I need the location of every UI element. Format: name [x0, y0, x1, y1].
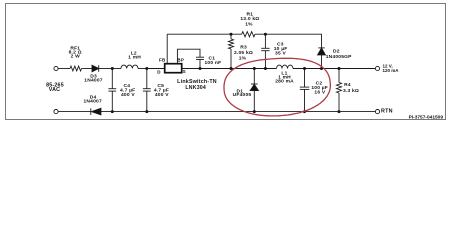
node D2 bottom	[320, 67, 323, 70]
node R3 top	[230, 33, 233, 36]
diode D2 1N4005GP	[318, 48, 326, 69]
wire L1 to output terminal	[293, 68, 375, 70]
svg-text:120 mA: 120 mA	[383, 68, 400, 73]
bottom return rail	[101, 111, 376, 113]
node D1 bottom	[253, 110, 256, 113]
svg-text:PI-3757-041509: PI-3757-041509	[409, 115, 444, 121]
svg-text:2 W: 2 W	[71, 54, 81, 60]
svg-text:3.3 kΩ: 3.3 kΩ	[343, 88, 359, 94]
wire RF1 to D3	[82, 68, 93, 70]
inductor L1	[277, 65, 294, 68]
node C3 bottom	[264, 67, 267, 70]
svg-text:FB: FB	[159, 58, 166, 63]
wire node to U1 D pin	[147, 68, 165, 70]
node C5 top	[145, 67, 148, 70]
svg-text:R4: R4	[344, 82, 351, 88]
node C4 top	[111, 67, 114, 70]
border frame	[6, 4, 446, 120]
pin BP riser to C1	[177, 49, 200, 64]
svg-text:D: D	[157, 69, 161, 74]
node R4 top	[338, 67, 341, 70]
svg-text:16 V: 16 V	[314, 90, 325, 96]
svg-text:1N4007: 1N4007	[84, 77, 103, 83]
output terminal RTN	[375, 110, 379, 114]
node D1 top	[253, 67, 256, 70]
resistor R3	[229, 34, 234, 68]
node C1 bottom	[199, 67, 202, 70]
wire L2 to node C5	[138, 68, 147, 70]
feedback line FB	[167, 33, 242, 35]
svg-text:35 V: 35 V	[275, 51, 286, 57]
svg-text:RTN: RTN	[381, 109, 393, 115]
capacitor C4	[108, 69, 116, 112]
input terminal bottom (neutral)	[54, 110, 58, 114]
svg-text:VAC: VAC	[49, 87, 60, 93]
highlight ellipse (red)	[224, 58, 330, 116]
node C4 bottom	[111, 110, 114, 113]
resistor RF1	[70, 66, 82, 71]
wire S pin to output rail	[182, 68, 277, 70]
inductor L2	[121, 65, 138, 68]
svg-text:1 mH: 1 mH	[128, 55, 141, 61]
node R4 bottom	[338, 110, 341, 113]
pin FB riser	[166, 34, 168, 64]
svg-text:1N4005GP: 1N4005GP	[326, 54, 352, 60]
svg-text:D2: D2	[333, 48, 340, 54]
wire terminal to D4	[58, 111, 91, 113]
input terminal top (line)	[54, 66, 58, 70]
capacitor C5	[143, 69, 151, 112]
node C2 bottom	[303, 110, 306, 113]
node C5 bottom	[145, 110, 148, 113]
wire D3 to node C4	[99, 68, 113, 70]
capacitor C2	[300, 69, 310, 112]
node C2 top	[303, 67, 306, 70]
svg-text:1%: 1%	[239, 56, 247, 62]
wire terminal to RF1	[58, 68, 70, 70]
svg-text:1%: 1%	[245, 21, 253, 27]
svg-text:R3: R3	[240, 45, 247, 51]
node R3 bottom	[230, 67, 233, 70]
diode D4 1N4007	[91, 108, 101, 115]
svg-text:400 V: 400 V	[155, 92, 169, 98]
svg-text:2.05 kΩ: 2.05 kΩ	[234, 50, 253, 56]
svg-text:13.0 kΩ: 13.0 kΩ	[240, 16, 259, 22]
svg-text:UF4005: UF4005	[233, 92, 252, 98]
wire R1 to D2 corner	[255, 34, 322, 48]
svg-text:400 V: 400 V	[121, 92, 135, 98]
svg-text:S: S	[183, 69, 186, 74]
svg-text:1N4007: 1N4007	[83, 99, 102, 105]
output terminal 12V	[375, 66, 379, 70]
capacitor C3	[261, 34, 269, 68]
capacitor C1	[196, 57, 204, 68]
diode D1 UF4005	[250, 69, 258, 112]
svg-text:BP: BP	[177, 58, 184, 63]
resistor R1	[242, 32, 255, 37]
wire node to L2	[112, 68, 121, 70]
svg-text:100 nF: 100 nF	[204, 60, 221, 66]
svg-text:LNK304: LNK304	[185, 85, 206, 91]
diode D3 1N4007	[92, 65, 99, 72]
svg-text:280 mA: 280 mA	[275, 79, 294, 85]
resistor R4	[337, 69, 342, 112]
op-amp U1 LinkSwitch-TN body	[165, 64, 182, 73]
node C3 top	[264, 33, 267, 36]
